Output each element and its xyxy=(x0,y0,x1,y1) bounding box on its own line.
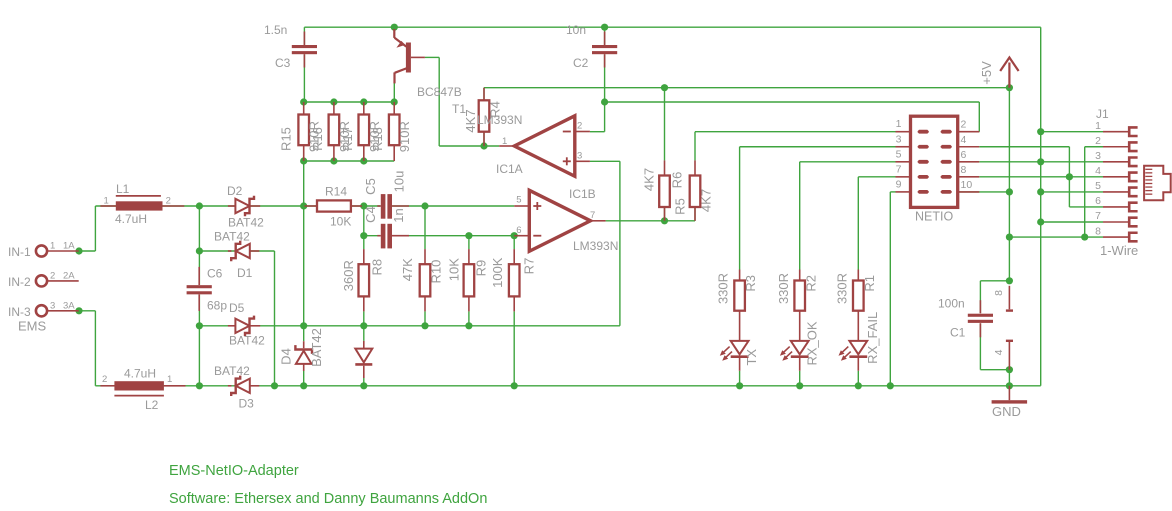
svg-text:360R: 360R xyxy=(341,260,356,291)
svg-text:R8: R8 xyxy=(369,259,384,276)
svg-text:J1: J1 xyxy=(1096,107,1109,121)
resistor R16 xyxy=(333,102,335,115)
svg-text:1: 1 xyxy=(896,118,902,130)
svg-text:IN-1: IN-1 xyxy=(8,245,31,259)
svg-text:330R: 330R xyxy=(715,273,730,304)
wire NETIO pin3 row to R3 xyxy=(740,146,896,148)
wire R7 bottom column to GND rail xyxy=(513,311,515,385)
diode D2 xyxy=(228,205,236,207)
wire C1 top branch xyxy=(980,280,1009,282)
connector IN-1 xyxy=(36,245,47,256)
svg-text:6: 6 xyxy=(1095,195,1101,207)
svg-text:100K: 100K xyxy=(490,257,505,288)
svg-text:10K: 10K xyxy=(330,215,351,229)
wire +5V column to GND symbol xyxy=(1008,370,1010,386)
svg-text:1: 1 xyxy=(1095,120,1101,132)
svg-text:10n: 10n xyxy=(566,23,586,37)
svg-text:BAT42: BAT42 xyxy=(214,230,250,244)
wire J1 pin1 row xyxy=(1041,131,1103,133)
svg-text:4: 4 xyxy=(993,349,1005,355)
svg-text:C4: C4 xyxy=(363,206,378,223)
NETIO pads xyxy=(918,130,929,134)
capacitor C4 xyxy=(377,235,381,237)
svg-text:10u: 10u xyxy=(391,171,406,193)
wire R2 LED bottom xyxy=(799,371,801,386)
wire J1 pin7 row xyxy=(1041,221,1103,223)
svg-text:5: 5 xyxy=(1095,180,1101,192)
svg-text:C2: C2 xyxy=(573,56,589,70)
wire R1 LED bottom xyxy=(857,371,859,386)
svg-text:3: 3 xyxy=(50,301,55,312)
svg-text:8: 8 xyxy=(1095,225,1101,237)
wire +5V column xyxy=(1008,88,1010,281)
svg-text:C3: C3 xyxy=(275,56,291,70)
svg-text:5: 5 xyxy=(516,195,521,206)
svg-text:R7: R7 xyxy=(521,258,536,275)
wire bottom GND rail xyxy=(95,385,1040,387)
svg-text:R10: R10 xyxy=(428,260,443,284)
wire C3 bottom lead xyxy=(303,54,305,102)
wire R6 top lead xyxy=(694,132,696,161)
wire IN-3 to corner xyxy=(79,310,95,312)
svg-text:4K7: 4K7 xyxy=(641,168,656,191)
svg-text:1A: 1A xyxy=(63,241,75,252)
wire D1 column down to bottom rail xyxy=(274,251,276,386)
svg-text:R16: R16 xyxy=(310,127,325,151)
svg-text:6: 6 xyxy=(516,225,521,236)
svg-text:R5: R5 xyxy=(672,198,687,215)
svg-text:R9: R9 xyxy=(474,260,489,277)
wire C2 top lead xyxy=(604,27,606,45)
svg-text:EMS: EMS xyxy=(18,319,47,334)
svg-text:68p: 68p xyxy=(207,299,227,313)
wire R4 bottom node xyxy=(483,132,485,146)
svg-text:EMS-NetIO-Adapter: EMS-NetIO-Adapter xyxy=(169,463,299,479)
capacitor C2 xyxy=(604,32,606,46)
svg-text:3: 3 xyxy=(896,133,902,145)
wire IC1B output row xyxy=(606,220,695,222)
svg-text:100n: 100n xyxy=(938,297,965,311)
capacitor C1 xyxy=(979,300,981,313)
wire D5 reference row xyxy=(199,325,620,327)
wire diode column top xyxy=(363,326,365,341)
wire NETIO pin8 row to J1 pin4 xyxy=(979,176,1103,178)
svg-text:C6: C6 xyxy=(207,267,223,281)
svg-text:5: 5 xyxy=(896,148,902,160)
wire transistor base to IC1A output xyxy=(425,56,439,58)
svg-text:D3: D3 xyxy=(239,397,255,411)
resistor R10 xyxy=(424,249,426,264)
wire C4 row to IC1B pin6 xyxy=(364,235,381,237)
svg-text:R6: R6 xyxy=(669,172,684,189)
wire R8 bottom lead xyxy=(363,311,365,325)
connector J1 pins xyxy=(1103,131,1129,133)
svg-text:D2: D2 xyxy=(227,184,243,198)
svg-text:1-Wire: 1-Wire xyxy=(1100,243,1138,258)
svg-text:D5: D5 xyxy=(229,301,245,315)
svg-text:8: 8 xyxy=(961,164,967,176)
svg-text:3: 3 xyxy=(1095,150,1101,162)
op-amp IC1B xyxy=(529,190,590,251)
svg-text:1.5n: 1.5n xyxy=(264,23,287,37)
NETIO right pin stubs xyxy=(958,131,980,133)
svg-text:9: 9 xyxy=(896,178,902,190)
resistor R8 xyxy=(363,249,365,264)
wire R3 column top xyxy=(739,147,741,270)
wire J1 pin3 row xyxy=(1041,161,1103,163)
wire left rail lower (C6 to bottom rail) xyxy=(198,295,200,386)
wire NETIO pin1 row to R6 xyxy=(695,131,896,133)
wire R2 column top xyxy=(799,162,801,270)
capacitor C3 xyxy=(303,32,305,46)
svg-text:D4: D4 xyxy=(278,348,293,365)
svg-text:7: 7 xyxy=(590,210,595,221)
svg-text:R17: R17 xyxy=(340,127,355,151)
wire top rail (GND net) from C3 to right column xyxy=(304,26,1040,28)
svg-text:IC1B: IC1B xyxy=(569,187,596,201)
wire bank column c1 down to D5 row xyxy=(303,161,305,326)
wire R9 top lead xyxy=(468,236,470,249)
junction dots xyxy=(75,247,82,254)
svg-text:2: 2 xyxy=(102,374,107,385)
wire IC1A pin3 column xyxy=(619,161,621,325)
wire 1-wire data column xyxy=(1068,147,1070,207)
svg-text:RX_OK: RX_OK xyxy=(804,321,819,365)
wire NETIO pin5 row to R2 xyxy=(800,161,896,163)
svg-text:R3: R3 xyxy=(743,275,758,292)
wire R10 bottom lead xyxy=(424,311,426,325)
wire IN-1 to corner xyxy=(79,250,95,252)
svg-text:2: 2 xyxy=(50,271,55,282)
wire right GND column down to bottom rail xyxy=(1040,27,1042,386)
wire C2 bottom lead to node xyxy=(604,54,606,102)
svg-text:R4: R4 xyxy=(487,101,502,118)
svg-text:4K7: 4K7 xyxy=(463,109,478,132)
wire resistor bank bottom row xyxy=(304,160,395,162)
resistor R9 xyxy=(468,249,470,264)
wire R8 top column xyxy=(363,206,365,249)
svg-text:1n: 1n xyxy=(391,208,406,222)
wire C5 right to IC1B pin5 node xyxy=(424,206,426,249)
transistor T1 BC847B xyxy=(393,29,395,38)
wire +5V row to J1 pin8 xyxy=(1009,236,1103,238)
svg-text:2: 2 xyxy=(166,196,171,207)
wire R5 bottom node xyxy=(664,207,666,221)
wire J1 pin5 row xyxy=(1041,191,1103,193)
svg-text:1: 1 xyxy=(50,241,55,252)
svg-text:BAT42: BAT42 xyxy=(229,334,265,348)
diode D3 xyxy=(228,385,232,387)
wire C3 top lead xyxy=(303,27,305,45)
wire IC1A pin2 jog xyxy=(590,131,605,133)
wire C1 bottom branch xyxy=(979,323,981,369)
svg-text:GND: GND xyxy=(992,404,1021,419)
svg-text:7: 7 xyxy=(1095,210,1101,222)
svg-text:TX: TX xyxy=(744,349,759,366)
svg-text:IN-2: IN-2 xyxy=(8,275,31,289)
svg-text:4: 4 xyxy=(961,134,967,146)
svg-text:1: 1 xyxy=(104,196,109,207)
diode D6 plain vertical xyxy=(363,341,365,349)
inductor L1 xyxy=(100,205,115,207)
wire R4 row +5V xyxy=(484,87,1009,89)
LED RX_OK xyxy=(791,341,809,354)
wire D4 column bottom xyxy=(303,371,305,386)
wire IN-1 corner up to L1 row xyxy=(94,206,96,251)
IC power pin 8 xyxy=(1008,286,1010,310)
wire resistor bank top row xyxy=(304,101,395,103)
wire transistor emitter column xyxy=(393,27,395,38)
svg-text:3: 3 xyxy=(577,151,582,162)
svg-text:10K: 10K xyxy=(446,258,461,281)
wire R5 top lead xyxy=(664,88,666,161)
wire IC1A pin3 stub row xyxy=(590,160,620,162)
svg-text:6: 6 xyxy=(961,149,967,161)
svg-text:8: 8 xyxy=(993,290,1005,296)
svg-text:BAT42: BAT42 xyxy=(214,364,250,378)
connector IN-2 xyxy=(36,275,47,286)
svg-text:330R: 330R xyxy=(835,273,850,304)
svg-text:3A: 3A xyxy=(63,301,75,312)
diode D1 xyxy=(228,250,232,252)
wire R3 LED bottom xyxy=(739,371,741,386)
svg-text:1: 1 xyxy=(167,374,172,385)
wire R9 bottom lead xyxy=(468,311,470,325)
wire R7 top lead xyxy=(513,236,515,249)
svg-text:Software: Ethersex and Danny B: Software: Ethersex and Danny Baumanns Ad… xyxy=(169,491,487,507)
svg-text:IC1A: IC1A xyxy=(496,162,523,176)
svg-text:R1: R1 xyxy=(862,275,877,292)
wire D4 column top xyxy=(303,326,305,341)
svg-text:C1: C1 xyxy=(950,326,966,340)
resistor R4 xyxy=(483,88,485,101)
svg-text:RX_FAIL: RX_FAIL xyxy=(865,312,880,364)
wire R6 bottom lead xyxy=(694,207,696,221)
wire main row L1/D2/R14/C5 to IC1B pin5 xyxy=(95,205,380,207)
connector IN-3 xyxy=(36,305,47,316)
IC power pin 4 xyxy=(1006,340,1013,342)
ground symbol GND xyxy=(1008,386,1010,400)
svg-text:BC847B: BC847B xyxy=(417,85,462,99)
svg-text:+5V: +5V xyxy=(979,61,994,85)
svg-text:L2: L2 xyxy=(145,398,159,412)
wire diode column bottom xyxy=(363,378,365,386)
svg-text:4: 4 xyxy=(1095,165,1101,177)
resistor R18 xyxy=(393,102,395,115)
diode D4 vertical xyxy=(303,341,305,348)
resistor R5 xyxy=(664,160,666,175)
wire NETIO pin10 row to +5V column xyxy=(958,191,1010,193)
NETIO left pin stubs xyxy=(896,131,911,133)
svg-text:910R: 910R xyxy=(397,121,412,152)
svg-text:47K: 47K xyxy=(400,258,415,281)
wire IN-3 corner down to L2 row xyxy=(94,311,96,386)
wire NETIO pin4 row to 1-wire column xyxy=(979,146,1069,148)
wire left rail upper (D2 row to C6) xyxy=(198,206,200,285)
wire D1 row xyxy=(199,250,274,252)
wire C2 node to NETIO pin2 xyxy=(605,101,980,103)
resistor R14 xyxy=(305,205,318,207)
svg-text:7: 7 xyxy=(896,163,902,175)
svg-text:1: 1 xyxy=(502,136,507,147)
svg-text:LM393N: LM393N xyxy=(573,239,618,253)
diode D5 xyxy=(228,325,236,327)
svg-text:4.7uH: 4.7uH xyxy=(115,212,147,226)
svg-text:C5: C5 xyxy=(363,178,378,195)
svg-text:4.7uH: 4.7uH xyxy=(124,367,156,381)
resistor R15 xyxy=(303,102,305,115)
svg-text:2A: 2A xyxy=(63,271,75,282)
LED RX_FAIL xyxy=(849,341,867,354)
resistor R3 xyxy=(739,270,741,281)
svg-text:BAT42: BAT42 xyxy=(309,328,324,367)
svg-text:IN-3: IN-3 xyxy=(8,305,31,319)
svg-text:L1: L1 xyxy=(116,182,130,196)
connector NETIO box xyxy=(911,116,958,207)
wire J1 pin6 row xyxy=(1069,206,1103,208)
capacitor C6 xyxy=(198,267,200,285)
svg-text:BAT42: BAT42 xyxy=(228,216,264,230)
svg-text:330R: 330R xyxy=(776,273,791,304)
resistor R6 xyxy=(694,160,696,175)
svg-text:NETIO: NETIO xyxy=(915,210,953,224)
svg-text:R18: R18 xyxy=(370,127,385,151)
wire J1 pin2 column xyxy=(1085,146,1103,148)
wire transistor collector column xyxy=(393,83,395,102)
svg-text:2: 2 xyxy=(1095,135,1101,147)
svg-text:D1: D1 xyxy=(237,266,253,280)
svg-text:2: 2 xyxy=(961,119,967,131)
LED TX xyxy=(731,341,749,354)
wire R4 top lead join xyxy=(483,88,485,101)
op-amp IC1A xyxy=(514,116,575,177)
wire NETIO pin7 row to R1 xyxy=(858,176,895,178)
svg-text:2: 2 xyxy=(577,121,582,132)
connector J1 RJ45 glyph xyxy=(1144,166,1171,201)
svg-text:R15: R15 xyxy=(279,127,294,151)
wire R1 column top xyxy=(857,177,859,270)
wire NETIO pin6 row to GND column xyxy=(979,161,1040,163)
resistor R1 xyxy=(857,270,859,281)
wire NETIO pin9 to GND rail xyxy=(890,191,895,193)
svg-text:4K7: 4K7 xyxy=(698,189,713,212)
svg-text:R2: R2 xyxy=(803,275,818,292)
resistor R17 xyxy=(363,102,365,115)
resistor R2 xyxy=(799,270,801,281)
resistor R7 xyxy=(513,249,515,264)
svg-text:10: 10 xyxy=(961,179,973,191)
svg-text:R14: R14 xyxy=(325,185,347,199)
inductor L2 xyxy=(100,385,114,387)
capacitor C5 xyxy=(377,205,381,207)
power +5V symbol xyxy=(1008,63,1010,88)
